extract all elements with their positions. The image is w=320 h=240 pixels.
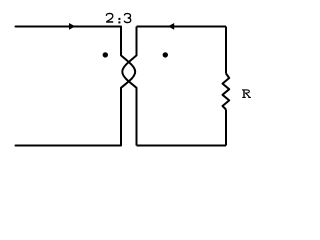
turns-ratio label 2:3 bbox=[106, 13, 131, 22]
wire top-left horizontal bbox=[16, 26, 122, 28]
transformer T1 primary winding (left conductor with twist) bbox=[121, 27, 135, 146]
wire top-right horizontal bbox=[137, 26, 227, 28]
wire bottom-right horizontal bbox=[137, 145, 227, 147]
wire bottom-left horizontal bbox=[16, 145, 122, 147]
value label R bbox=[242, 90, 251, 98]
wire right vertical lower bbox=[225, 110, 227, 146]
resistor R zigzag bbox=[223, 74, 230, 110]
transformer T1 secondary winding (right conductor with twist) bbox=[122, 27, 136, 146]
polarity dot secondary bbox=[163, 52, 168, 57]
wire right vertical upper bbox=[225, 27, 227, 74]
polarity dot primary bbox=[103, 52, 108, 57]
current arrow secondary (points left) bbox=[168, 23, 174, 30]
current arrow primary (points right) bbox=[69, 23, 75, 30]
